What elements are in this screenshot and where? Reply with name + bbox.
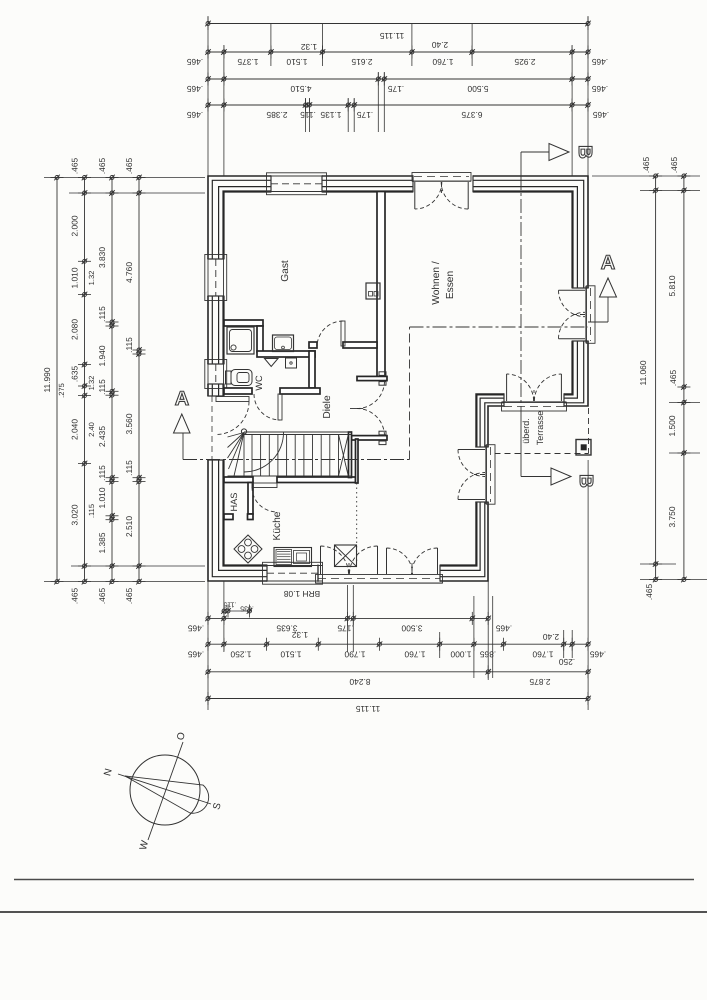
dimension chain bottom rowB [208,643,588,645]
door leaf kitchen door [252,483,277,488]
svg-text:1.32: 1.32 [292,630,309,640]
svg-text:2.615: 2.615 [351,57,372,67]
washbasin 1 [273,335,294,352]
svg-text:1.375: 1.375 [237,57,258,67]
svg-text:.635: .635 [70,366,80,383]
section line B-B with arrows [521,151,549,153]
svg-text:.465: .465 [590,650,607,660]
svg-text:BRH 1.08: BRH 1.08 [284,589,321,599]
svg-text:.465: .465 [124,158,134,175]
kitchen hob [234,535,262,563]
door frame hook lower b [379,441,386,445]
door leaf bar Diele door lower [352,436,388,440]
svg-text:2.40: 2.40 [543,632,560,642]
terrace boundary dashed east [588,408,590,454]
extension lines top [207,16,209,176]
washbasin 2 [286,358,297,368]
svg-text:B: B [574,145,595,159]
dimension chain right colB [683,176,685,580]
svg-text:.115: .115 [124,337,134,353]
svg-text:2.40: 2.40 [432,40,449,50]
door S3 south double french doors with swing arcs [316,575,443,584]
svg-text:WC: WC [254,375,264,391]
svg-text:1.760: 1.760 [404,650,425,660]
door frame hook upper b [379,382,386,386]
electrical box [366,283,380,299]
svg-text:1.790: 1.790 [344,650,365,660]
dimension chain left col4 [138,178,140,582]
svg-text:HAS: HAS [229,493,239,512]
svg-text:.465: .465 [187,110,204,120]
shower tray [227,327,254,354]
svg-text:überd.: überd. [521,418,531,444]
dimension chain left col1 [56,178,58,582]
svg-text:.465: .465 [70,158,80,175]
svg-text:.465: .465 [592,84,609,94]
interior wall kitchen east stub [356,439,359,483]
interior wall Gast bottom west stub [309,342,317,348]
svg-text:.465: .465 [97,588,107,605]
svg-text:4.760: 4.760 [124,262,134,283]
extension lines bottom [207,581,209,710]
svg-text:3.750: 3.750 [667,506,677,527]
door W2 north french door with swing arcs [412,173,471,182]
svg-text:.175: .175 [357,110,374,120]
svg-text:1.010: 1.010 [70,267,80,288]
svg-text:1.32: 1.32 [301,42,318,52]
svg-text:A: A [601,252,615,274]
svg-text:1.510: 1.510 [286,57,307,67]
horizontal rule 2 [0,911,707,913]
dimension chain bottom rowD [208,698,588,700]
door leaf WC door [278,394,282,420]
door leaf Gast door [341,321,345,346]
boundary kitchen/dining dotted [356,483,358,564]
swing arc WC door [254,394,280,420]
sub dimension chain kitchen window [222,610,252,612]
door frame hook upper a [379,372,386,376]
extension lines right [592,175,700,177]
svg-text:1.385: 1.385 [97,532,107,553]
svg-text:1.940: 1.940 [97,345,107,366]
dimension chain top row2 [208,51,588,53]
svg-text:1.510: 1.510 [280,650,301,660]
svg-text:.115: .115 [97,306,107,322]
svg-text:.175: .175 [337,623,354,633]
svg-text:.465: .465 [70,588,80,605]
svg-text:1.135: 1.135 [320,110,341,120]
svg-text:.250: .250 [559,657,576,667]
dimension chain top row4 [208,104,588,106]
interior wall HAS south east [248,514,254,520]
svg-text:2.875: 2.875 [529,677,550,687]
svg-text:Diele: Diele [322,395,333,419]
svg-text:3.560: 3.560 [124,413,134,434]
swing arc Gast door [317,321,343,347]
svg-text:.115: .115 [223,601,236,608]
interior wall Gast/Wohnen [377,192,385,378]
svg-text:11.060: 11.060 [638,360,648,385]
svg-text:.865: .865 [480,650,497,660]
dimension chain top row3 [208,78,588,80]
svg-text:2.040: 2.040 [70,419,80,440]
svg-text:1.000: 1.000 [450,650,471,660]
terrace boundary dashed south [495,453,589,455]
interior wall HAS south west [224,514,233,520]
svg-text:Küche: Küche [272,511,283,540]
svg-text:Essen: Essen [445,271,456,299]
kitchen sink unit [274,548,312,567]
svg-text:1.250: 1.250 [230,650,251,660]
svg-text:.465: .465 [641,157,651,174]
svg-text:.465: .465 [668,370,678,387]
window W1 north (Gast) [267,173,327,195]
svg-text:3.020: 3.020 [70,504,80,525]
swing arc kitchen door [252,487,277,512]
svg-text:Gast: Gast [280,260,291,282]
triangle symbol [265,359,279,367]
svg-text:1.32: 1.32 [87,271,96,286]
svg-text:6.375: 6.375 [461,110,482,120]
svg-text:.115: .115 [97,465,107,481]
dimension chain left col2 [84,178,86,582]
svg-text:1.760: 1.760 [532,650,553,660]
svg-text:11.990: 11.990 [42,367,52,392]
door E1 east terrace door with swing arcs [587,286,596,344]
svg-text:11.115: 11.115 [355,704,380,714]
svg-text:.465: .465 [187,84,204,94]
svg-text:2.40: 2.40 [87,422,96,437]
svg-text:3.830: 3.830 [97,247,107,268]
svg-text:1.32: 1.32 [87,376,96,391]
interior wall bath middle [257,351,315,357]
svg-text:.465: .465 [592,57,609,67]
svg-text:.465: .465 [644,584,654,601]
dimension chain bottom rowA [208,617,488,619]
interior wall stairs/kitchen west part [224,477,253,483]
interior wall stairs/kitchen east part [277,477,356,483]
svg-text:5.500: 5.500 [467,84,488,94]
dimension chain left col3 [111,178,113,582]
horizontal rule 1 [14,879,694,881]
svg-text:.465: .465 [188,650,205,660]
dimension chain right colA [655,176,657,580]
compass rose [130,755,200,825]
svg-text:1.010: 1.010 [97,487,107,508]
interior wall WC east [309,351,315,388]
outer wall envelope (4-line exterior wall) [208,176,588,581]
svg-text:.635: .635 [240,605,254,612]
svg-text:2.000: 2.000 [70,215,80,236]
door S2 east french door of dining with swing arcs [487,445,496,505]
door frame hook lower a [379,431,386,435]
svg-text:.115: .115 [124,460,134,476]
wall opening punches [271,175,322,194]
extension lines left [44,177,205,179]
swing arc Diele double door lower [357,409,385,437]
svg-text:.115: .115 [300,110,316,120]
svg-text:.465: .465 [496,623,513,633]
svg-text:1.760: 1.760 [432,57,453,67]
svg-text:.275: .275 [57,383,66,398]
interior wall bath north [224,320,263,326]
svg-text:.465: .465 [188,623,205,633]
interior wall bath step [257,326,263,352]
dimension chain top row1 [208,23,588,25]
svg-text:Terrasse: Terrasse [535,411,545,446]
interior wall WC south west part [224,388,252,394]
svg-text:.465: .465 [124,588,134,605]
svg-text:.465: .465 [187,57,204,67]
window W5 west (WC) [205,360,227,389]
svg-text:.175: .175 [388,84,405,94]
door D1 west entrance door with sidelight [211,396,213,460]
svg-text:A: A [175,388,189,410]
svg-text:2.925: 2.925 [514,57,535,67]
svg-text:3.500: 3.500 [401,623,422,633]
svg-text:2.385: 2.385 [266,110,287,120]
svg-text:B: B [575,474,596,488]
meeting dash Diele door [350,408,363,410]
interior wall WC south east part [280,388,320,394]
svg-text:.465: .465 [669,157,679,174]
interior wall HAS east [248,483,253,515]
svg-text:4.510: 4.510 [290,84,311,94]
door leaf bar Diele door upper [357,376,387,380]
svg-text:2.435: 2.435 [97,426,107,447]
wall opening end caps [270,175,272,192]
svg-text:2.510: 2.510 [124,516,134,537]
svg-text:.115: .115 [97,379,107,395]
stairs with winder treads [244,431,352,433]
svg-text:2.080: 2.080 [70,319,80,340]
terrace column [576,440,591,456]
svg-text:5.810: 5.810 [667,275,677,296]
svg-text:11.115: 11.115 [379,31,404,41]
swing arc Diele double door upper [357,381,385,409]
door S1 south-east french door with swing arcs [502,403,567,412]
svg-text:.465: .465 [97,158,107,175]
window W4 west (Gast) [205,255,227,301]
kitchen corner unit X [335,545,357,567]
svg-text:8.240: 8.240 [349,677,370,687]
window W3 south (Kueche) [263,562,323,584]
svg-text:1.500: 1.500 [667,415,677,436]
interior wall Gast bottom east part [343,342,377,348]
svg-text:.465: .465 [593,110,610,120]
svg-text:.115: .115 [87,504,96,518]
toilet WC [226,371,232,384]
svg-text:Wohnen /: Wohnen / [431,261,442,305]
dimension chain bottom rowC [208,671,588,673]
interior wall stair end [349,432,352,478]
